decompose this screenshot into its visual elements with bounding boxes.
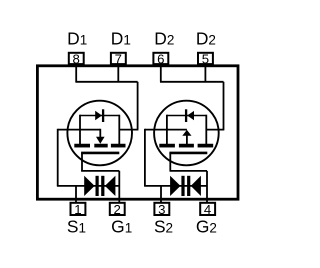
pin 4 number bbox=[204, 202, 211, 217]
label D1 (pin 7) bbox=[111, 28, 131, 48]
ESD diode pair 1 left diode triangle bbox=[84, 176, 94, 196]
Q1 body stem bbox=[99, 129, 101, 138]
Q2 body stem bbox=[186, 135, 188, 145]
pin 6 number bbox=[157, 52, 164, 67]
pin 5 box bbox=[198, 53, 213, 64]
pin 7 number bbox=[115, 52, 122, 67]
label D1 (pin 8) bbox=[67, 28, 87, 48]
label G1 (pin 2) bbox=[111, 217, 132, 237]
ESD diode pair 2 right cathode bar bbox=[187, 176, 190, 196]
pin 8 box bbox=[69, 53, 84, 64]
pin 6 box bbox=[153, 53, 168, 64]
Q1 body arrow (N-channel, pointing down) bbox=[96, 137, 105, 144]
ESD diode pair 2 left cathode bar bbox=[181, 176, 184, 196]
svg-text:4: 4 bbox=[204, 202, 211, 217]
wire S2 net (pin 3, Q2 source/body rail) bbox=[144, 129, 207, 203]
wire S1 net (pin 1, Q1 source/body rail) bbox=[57, 129, 119, 203]
label S1 (pin 1) bbox=[67, 217, 86, 237]
pin 1 number bbox=[74, 202, 81, 217]
pin 3 number bbox=[158, 202, 165, 217]
label S2 (pin 3) bbox=[154, 217, 173, 237]
MOSFET Q1 source-side vertical bbox=[79, 115, 81, 145]
ESD diode pair 2 right diode triangle bbox=[191, 176, 201, 196]
MOSFET Q2 source-side vertical bbox=[166, 115, 168, 145]
package outline bbox=[37, 66, 238, 199]
svg-text:8: 8 bbox=[73, 52, 80, 67]
svg-text:6: 6 bbox=[157, 52, 164, 67]
pin 1 box bbox=[71, 203, 86, 215]
ESD diode pair 1 right diode triangle bbox=[105, 176, 116, 196]
wire D1 net (pins 8,7 to Q1 drain) bbox=[75, 64, 138, 130]
label G2 (pin 4) bbox=[196, 217, 217, 237]
Q2 body arrow (P-channel, pointing up) bbox=[182, 130, 191, 136]
pin 3 box bbox=[154, 203, 169, 215]
Q2 channel bars bbox=[159, 144, 213, 148]
Q1 gate line bbox=[81, 152, 119, 155]
pin 8 number bbox=[73, 52, 80, 67]
Q2 body diode cathode bar bbox=[185, 109, 187, 122]
Q2 gate line bbox=[169, 152, 207, 155]
Q1 body diode triangle bbox=[95, 111, 102, 121]
Q2 body diode triangle bbox=[187, 111, 194, 120]
MOSFET Q1 circle bbox=[67, 101, 132, 166]
wire G2 net (pin 4 to Q2 gate) bbox=[170, 153, 208, 203]
ESD diode pair 1 right cathode bar bbox=[101, 176, 104, 196]
pin 7 box bbox=[111, 53, 126, 64]
pin 4 box bbox=[200, 203, 215, 215]
Q1 channel bars bbox=[74, 144, 125, 148]
svg-text:1: 1 bbox=[74, 202, 81, 217]
label D2 (pin 6) bbox=[154, 28, 174, 48]
wire D2 net (pins 6,5 to Q2 drain) bbox=[160, 64, 224, 130]
ESD diode pair 1 left cathode bar bbox=[96, 176, 99, 196]
svg-text:2: 2 bbox=[114, 202, 121, 217]
MOSFET Q2 top wire (body diode branch) bbox=[167, 115, 206, 117]
Q1 body diode cathode bar bbox=[102, 109, 104, 122]
pin 2 box bbox=[110, 203, 125, 215]
MOSFET Q2 drain-side vertical bbox=[205, 115, 207, 145]
label D2 (pin 5) bbox=[196, 28, 216, 48]
MOSFET Q1 drain-side vertical bbox=[118, 115, 120, 145]
wire G1 net (pin 2 to Q1 gate) bbox=[81, 153, 119, 203]
pin 2 number bbox=[114, 202, 121, 217]
svg-text:7: 7 bbox=[115, 52, 122, 67]
ESD diode pair 2 left diode triangle bbox=[170, 176, 180, 196]
svg-text:3: 3 bbox=[158, 202, 165, 217]
MOSFET Q2 circle bbox=[154, 101, 219, 166]
pin 5 number bbox=[202, 52, 209, 67]
svg-text:5: 5 bbox=[202, 52, 209, 67]
MOSFET Q1 top wire (body diode branch) bbox=[80, 115, 119, 117]
